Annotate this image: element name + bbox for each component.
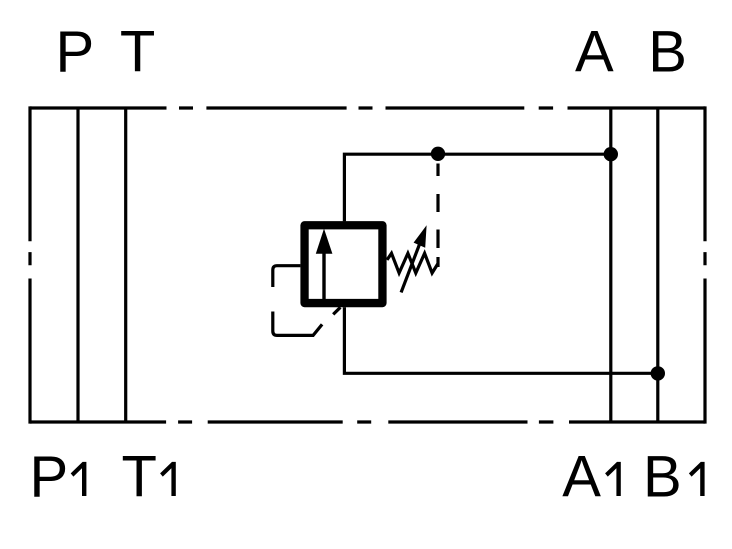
svg-text:B: B: [643, 444, 682, 509]
svg-text:B: B: [648, 20, 687, 85]
svg-text:P: P: [30, 444, 69, 509]
svg-text:A: A: [575, 20, 614, 85]
svg-text:A: A: [562, 444, 601, 509]
svg-text:T: T: [121, 444, 156, 509]
svg-text:P: P: [55, 20, 94, 85]
svg-text:T: T: [120, 20, 155, 85]
